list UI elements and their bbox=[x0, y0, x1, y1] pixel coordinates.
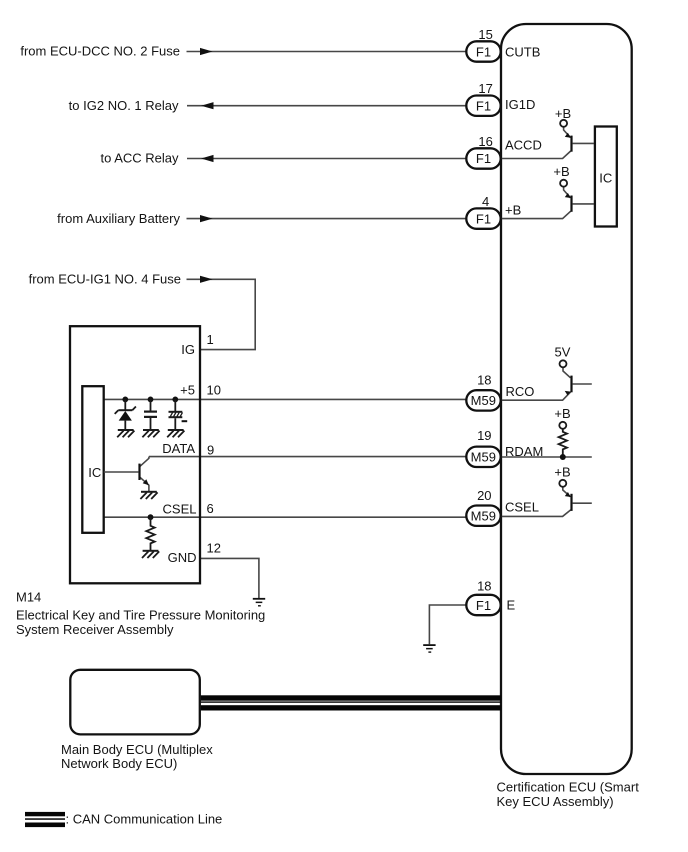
IC box ECU bbox=[595, 127, 617, 227]
svg-text:+B: +B bbox=[505, 203, 521, 218]
svg-text:10: 10 bbox=[207, 382, 221, 397]
svg-text:17: 17 bbox=[478, 81, 492, 96]
wire RCO to transistor bbox=[501, 392, 571, 400]
ground chassis Q1 emitter bbox=[140, 492, 157, 499]
svg-text:IG: IG bbox=[181, 342, 195, 357]
svg-text:CSEL: CSEL bbox=[505, 500, 539, 515]
arrowhead emitter Q3 bbox=[565, 193, 571, 198]
svg-text:+B: +B bbox=[555, 106, 571, 121]
svg-text:19: 19 bbox=[477, 428, 491, 443]
svg-text:M59: M59 bbox=[471, 393, 496, 408]
svg-text:F1: F1 bbox=[476, 211, 491, 226]
svg-text:from ECU-IG1 NO. 4 Fuse: from ECU-IG1 NO. 4 Fuse bbox=[29, 272, 181, 287]
zener diode D1 bbox=[115, 399, 136, 430]
ground chassis R1 bbox=[142, 551, 159, 558]
svg-text:Key ECU Assembly): Key ECU Assembly) bbox=[497, 794, 614, 809]
svg-text:CSEL: CSEL bbox=[163, 502, 197, 517]
svg-text:ACCD: ACCD bbox=[505, 138, 542, 153]
wire DATA line pin9 to pin19 bbox=[149, 456, 466, 458]
wire to IG2 NO.1 Relay from pin 17 bbox=[187, 105, 466, 107]
svg-text:IC: IC bbox=[88, 465, 101, 480]
connector M59 pin18 RCO bbox=[466, 390, 500, 410]
connector M59 pin19 RDAM bbox=[466, 447, 500, 467]
svg-text:: CAN Communication Line: : CAN Communication Line bbox=[66, 812, 223, 827]
svg-text:E: E bbox=[507, 598, 516, 613]
svg-text:IG1D: IG1D bbox=[505, 97, 535, 112]
svg-text:+B: +B bbox=[553, 164, 569, 179]
wire CSEL to transistor bbox=[501, 510, 571, 517]
transistor Q5 CSEL pnp bbox=[563, 487, 592, 503]
Main Body ECU box bbox=[70, 670, 200, 735]
junction node +5/capacitor bbox=[148, 397, 154, 403]
svg-text:to ACC Relay: to ACC Relay bbox=[100, 151, 179, 166]
svg-text:Main Body ECU (Multiplex: Main Body ECU (Multiplex bbox=[61, 742, 213, 757]
svg-text:15: 15 bbox=[478, 27, 492, 42]
svg-text:from ECU-DCC NO. 2 Fuse: from ECU-DCC NO. 2 Fuse bbox=[20, 44, 180, 59]
arrowhead emitter Q5 bbox=[565, 492, 571, 497]
svg-text:20: 20 bbox=[477, 488, 491, 503]
svg-text:DATA: DATA bbox=[162, 441, 195, 456]
arrowhead right y279 bbox=[200, 276, 213, 283]
svg-text:+B: +B bbox=[554, 406, 570, 421]
wire +B pin to transistor bbox=[501, 211, 571, 218]
svg-text:CUTB: CUTB bbox=[505, 44, 540, 59]
arrowhead left y158 bbox=[201, 155, 214, 162]
svg-text:Network Body ECU): Network Body ECU) bbox=[61, 756, 177, 771]
svg-text:GND: GND bbox=[168, 550, 197, 565]
connector M59 pin20 CSEL bbox=[466, 506, 500, 526]
wire +5 line pin10 to pin18 bbox=[104, 398, 467, 400]
svg-text:from Auxiliary Battery: from Auxiliary Battery bbox=[57, 211, 180, 226]
ground chassis electrolytic bbox=[167, 430, 184, 437]
ground chassis capacitor bbox=[142, 430, 159, 437]
junction node RDAM/R2 bbox=[560, 454, 566, 460]
svg-text:F1: F1 bbox=[476, 99, 491, 114]
resistor R1 CSEL pulldown bbox=[146, 517, 154, 550]
capacitor C1 bbox=[144, 399, 157, 430]
svg-text:M14: M14 bbox=[16, 590, 41, 605]
connector F1 pin17 IG1D bbox=[466, 96, 500, 116]
svg-text:M59: M59 bbox=[471, 509, 496, 524]
legend CAN symbol bbox=[25, 812, 65, 827]
junction node +5/electrolytic bbox=[172, 397, 178, 403]
svg-text:16: 16 bbox=[478, 134, 492, 149]
svg-text:F1: F1 bbox=[476, 598, 491, 613]
svg-text:+B: +B bbox=[554, 465, 570, 480]
arrowhead right y51 bbox=[200, 48, 213, 55]
svg-text:IC: IC bbox=[599, 171, 612, 186]
wire ACCD to transistor bbox=[501, 151, 571, 159]
svg-text:RDAM: RDAM bbox=[505, 444, 543, 459]
transistor Q4 RCO pnp bbox=[563, 368, 592, 385]
connector F1 pin16 ACCD bbox=[466, 148, 500, 168]
ground chassis zener bbox=[117, 430, 134, 437]
svg-text:M59: M59 bbox=[471, 450, 496, 465]
svg-text:Certification ECU (Smart: Certification ECU (Smart bbox=[497, 779, 640, 794]
junction node CSEL/resistor bbox=[148, 514, 154, 520]
svg-text:RCO: RCO bbox=[506, 384, 535, 399]
terminal 5V Q4 bbox=[560, 360, 567, 367]
svg-text:18: 18 bbox=[477, 578, 491, 593]
svg-text:F1: F1 bbox=[476, 151, 491, 166]
svg-text:Electrical Key and Tire Pressu: Electrical Key and Tire Pressure Monitor… bbox=[16, 607, 265, 622]
wire from ECU-IG1 NO.4 Fuse to pin 1 IG bbox=[187, 279, 256, 349]
svg-text:1: 1 bbox=[207, 332, 214, 347]
wire GND pin12 to earth bbox=[200, 558, 259, 598]
connector F1 pin18 E bbox=[466, 595, 500, 615]
arrowhead emitter Q4 bbox=[565, 391, 571, 395]
svg-text:4: 4 bbox=[482, 194, 489, 209]
resistor R2 RDAM pullup bbox=[559, 429, 567, 457]
svg-text:+5: +5 bbox=[180, 382, 195, 397]
svg-text:F1: F1 bbox=[476, 44, 491, 59]
wire from ECU-DCC NO.2 Fuse to pin 15 bbox=[187, 51, 467, 53]
terminal +B Q5 bbox=[559, 480, 566, 487]
wire RDAM internal bbox=[501, 456, 592, 458]
wire to ACC Relay from pin 16 bbox=[187, 158, 466, 160]
svg-text:to IG2 NO. 1 Relay: to IG2 NO. 1 Relay bbox=[69, 98, 179, 113]
wire CSEL line pin6 to pin20 bbox=[104, 516, 467, 518]
IC box receiver bbox=[82, 386, 103, 533]
transistor Q2 ACCD pnp bbox=[564, 127, 594, 143]
minus polarity mark bbox=[182, 420, 188, 422]
svg-text:6: 6 bbox=[207, 501, 214, 516]
svg-text:18: 18 bbox=[477, 372, 491, 387]
arrowhead right y218 bbox=[200, 215, 213, 222]
transistor Q3 +B pnp bbox=[564, 187, 594, 204]
ground earth E bbox=[423, 644, 435, 653]
arrowhead emitter Q1 bbox=[143, 479, 149, 485]
receiver box M14 bbox=[70, 326, 200, 583]
terminal +B R2 bbox=[559, 422, 566, 429]
svg-text:12: 12 bbox=[207, 540, 221, 555]
svg-text:System Receiver Assembly: System Receiver Assembly bbox=[16, 622, 174, 637]
ground earth GND bbox=[253, 598, 265, 607]
ECU box Certification ECU bbox=[501, 24, 632, 774]
arrowhead emitter Q2 bbox=[565, 133, 571, 138]
wire E to earth ground bbox=[429, 605, 466, 644]
terminal +B Q2 bbox=[560, 120, 567, 127]
connector F1 pin4 +B bbox=[466, 208, 500, 228]
transistor Q1 DATA npn bbox=[104, 457, 149, 492]
terminal +B Q3 bbox=[560, 180, 567, 187]
electrolytic capacitor C2 bbox=[169, 399, 183, 430]
junction node +5/zener bbox=[122, 397, 128, 403]
arrowhead left y105 bbox=[201, 102, 214, 109]
CAN communication line bbox=[201, 695, 501, 710]
connector F1 pin15 CUTB bbox=[466, 41, 500, 61]
svg-text:5V: 5V bbox=[555, 344, 571, 359]
wire from Auxiliary Battery to pin 4 bbox=[187, 218, 467, 220]
svg-text:9: 9 bbox=[207, 443, 214, 458]
